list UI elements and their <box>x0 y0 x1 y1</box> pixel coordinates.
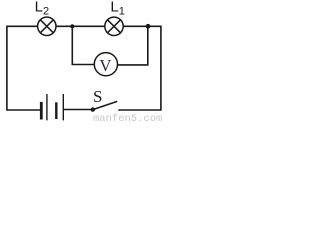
switch S <box>91 101 118 111</box>
svg-text:S: S <box>93 87 102 106</box>
wire L1 to top-right corner, right side down, to switch contact <box>118 26 161 110</box>
wire left side: battery to left to top to lamp L2 <box>7 26 41 110</box>
lamp L1 <box>105 17 123 35</box>
wire battery to switch pivot <box>64 109 92 111</box>
lamp L2 <box>38 17 56 35</box>
wire L2 to L1 <box>56 25 105 27</box>
node junction dot right <box>146 24 151 29</box>
node junction dot left <box>70 24 74 28</box>
wire voltmeter branch right <box>118 26 148 65</box>
wire voltmeter branch left <box>72 26 94 65</box>
svg-text:manfen5.com: manfen5.com <box>93 113 162 123</box>
battery <box>41 94 63 120</box>
svg-text:V: V <box>99 56 111 75</box>
voltmeter V <box>94 53 117 76</box>
